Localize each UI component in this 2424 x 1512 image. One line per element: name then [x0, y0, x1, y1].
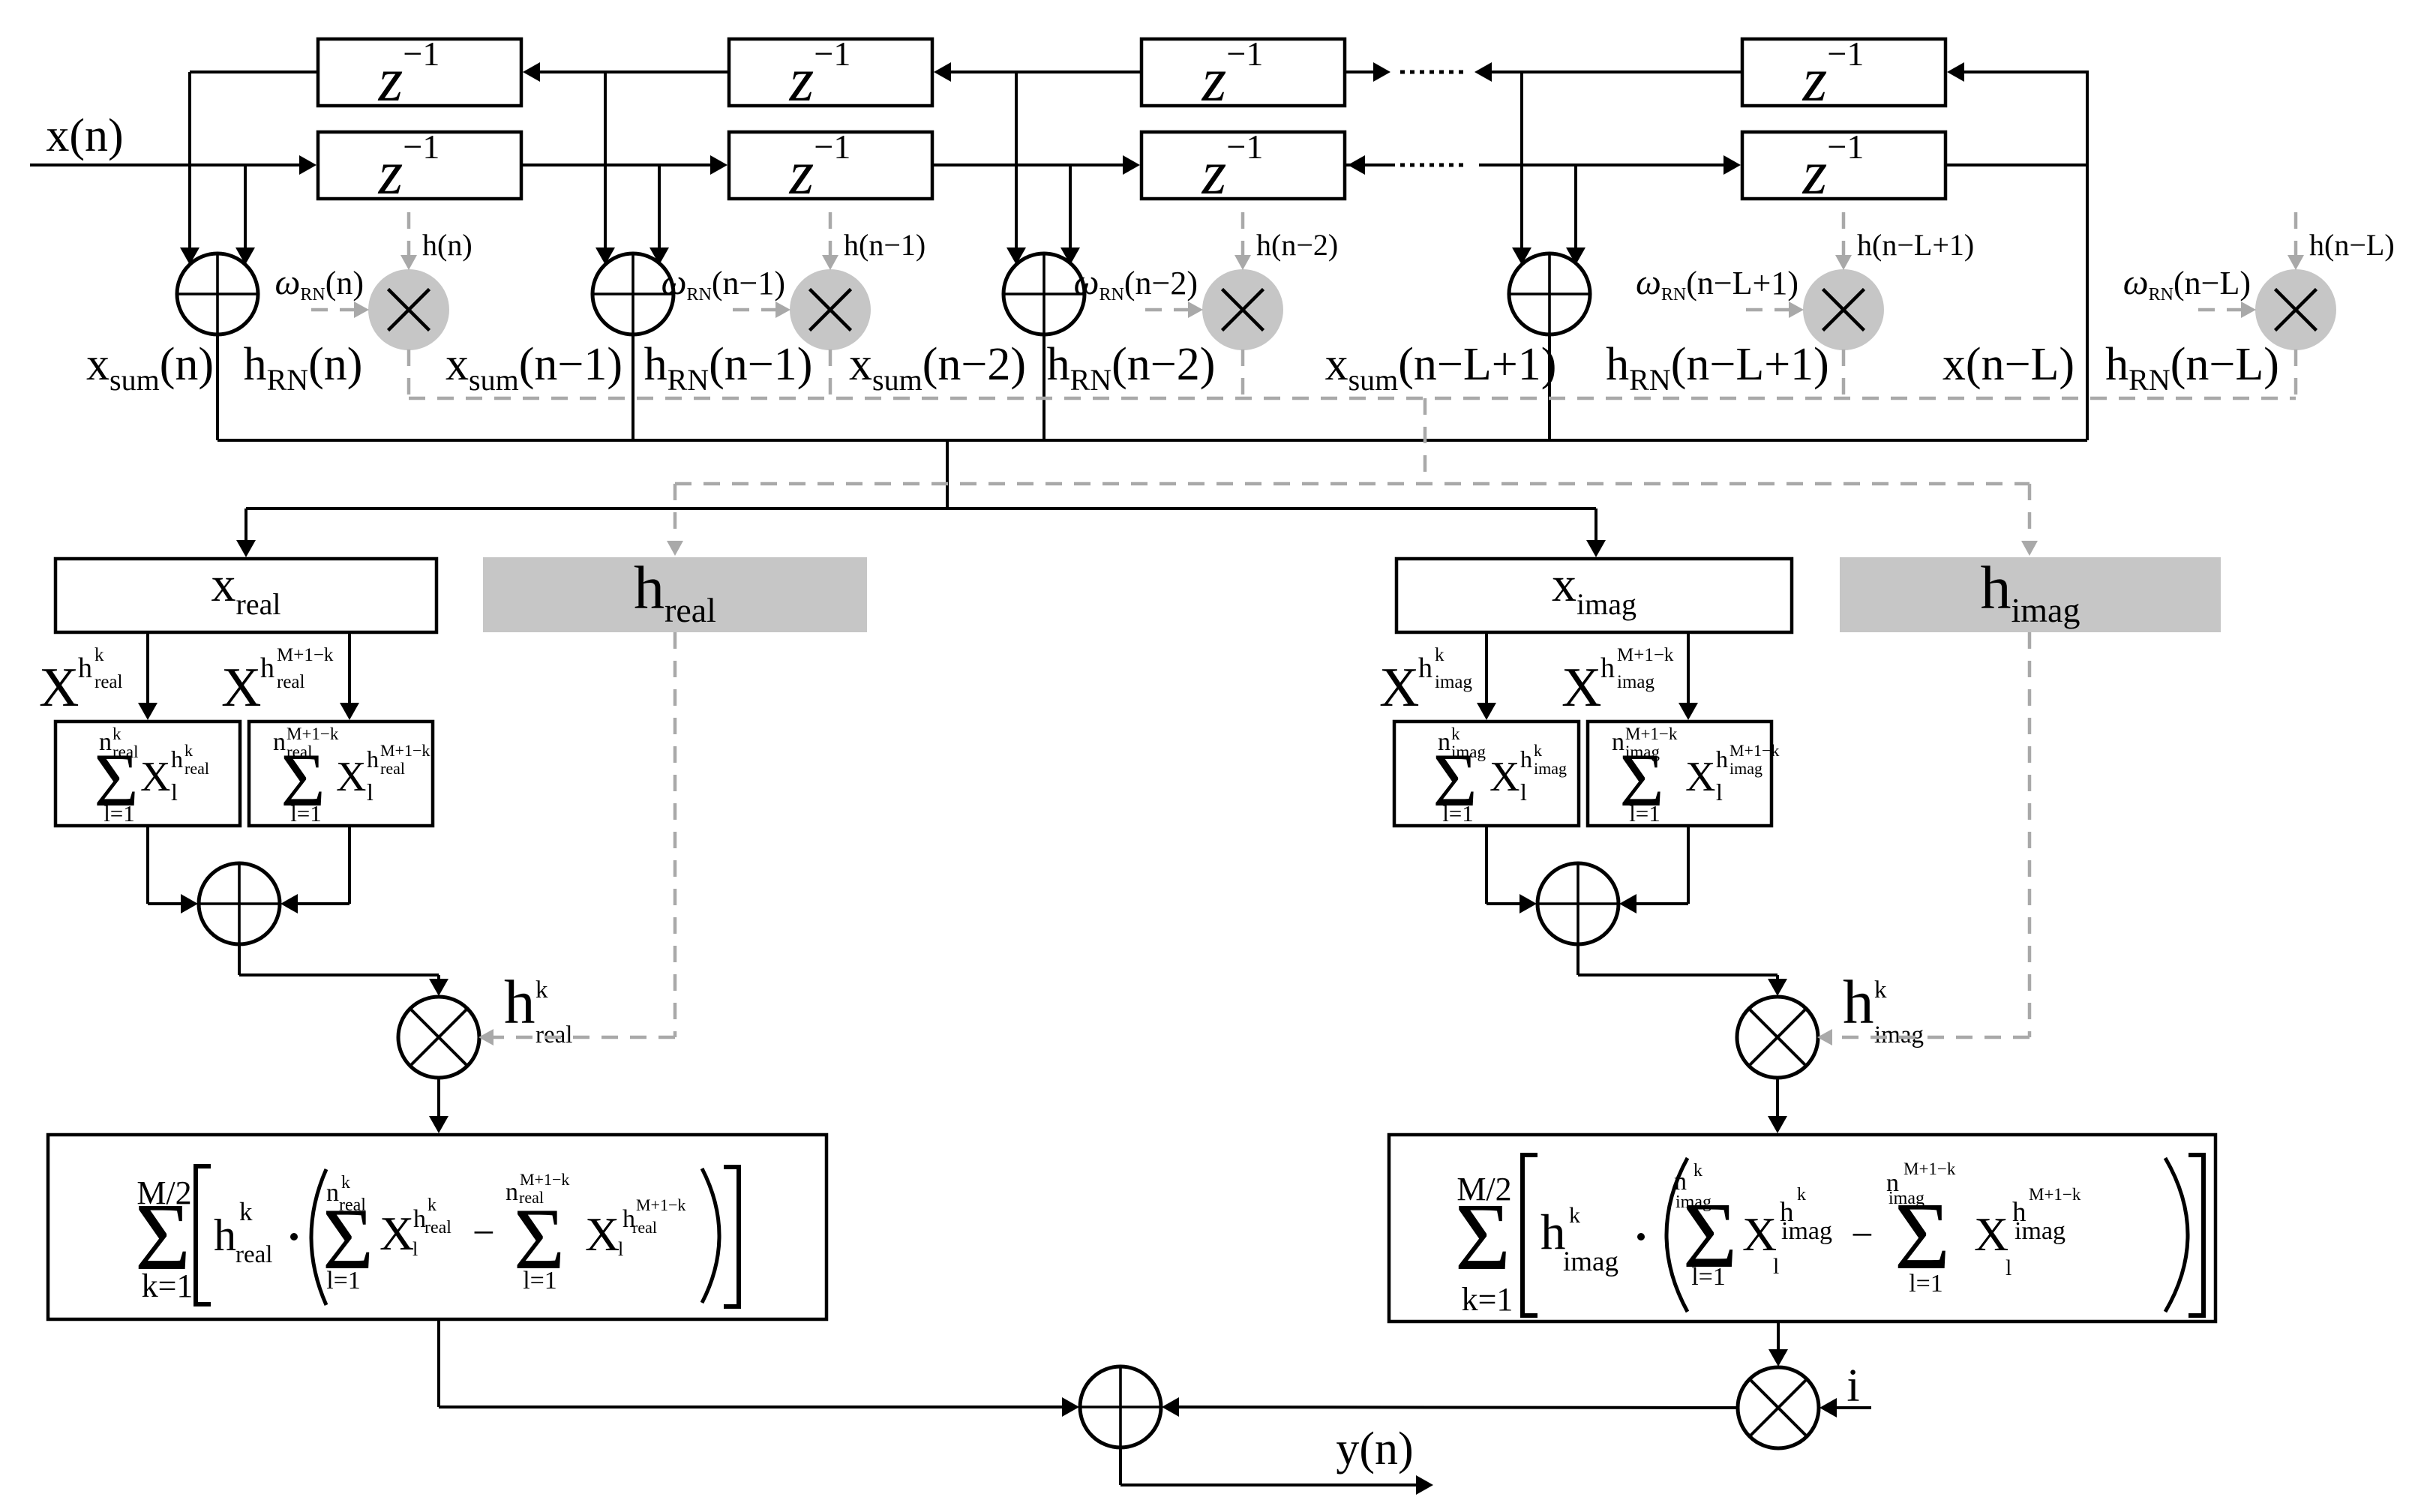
svg-text:h(n−1): h(n−1) — [844, 228, 925, 262]
svg-text:imag: imag — [1874, 1021, 1924, 1048]
mid adder (plus circle) real — [199, 863, 280, 944]
svg-text:X: X — [1685, 754, 1715, 800]
dashed h input from above into multiplier 4 — [1842, 212, 1846, 255]
svg-text:ωRN(n−L): ωRN(n−L) — [2123, 262, 2251, 304]
tap row1 stage2 down to adder A2 — [604, 72, 607, 248]
wire sum box outputs into mid adder imag — [1485, 826, 1488, 904]
svg-text:h: h — [1843, 967, 1874, 1036]
svg-text:l=1: l=1 — [1629, 800, 1660, 826]
svg-text:k=1: k=1 — [142, 1267, 193, 1304]
svg-text:imag: imag — [1435, 672, 1472, 692]
svg-text:M+1−k: M+1−k — [636, 1195, 685, 1214]
dashed omega input from left into multiplier 3 — [1145, 308, 1189, 312]
svg-text:hRN(n−1): hRN(n−1) — [644, 339, 813, 397]
dashed h input from above into multiplier 3 — [1241, 212, 1245, 255]
svg-text:ωRN(n−2): ωRN(n−2) — [1074, 262, 1198, 304]
sum box 2 imag — [1588, 721, 1771, 826]
svg-text:imag: imag — [1534, 759, 1567, 778]
sum box 2 real — [249, 721, 433, 826]
multiplier (gray X circle) 5 — [2255, 269, 2336, 350]
arrow from x_imag into right sum box — [1687, 632, 1690, 706]
svg-text:l=1: l=1 — [1909, 1270, 1943, 1297]
formula box real sum — [48, 1135, 826, 1319]
svg-text:l: l — [1716, 778, 1723, 805]
delay box z-1 bottom row stage 4 — [1742, 132, 1945, 199]
svg-text:h: h — [1520, 745, 1532, 772]
svg-text:k: k — [1569, 1203, 1580, 1228]
multiplier (gray X circle) 2 — [790, 269, 871, 350]
arrow from x_real into right sum box — [348, 632, 351, 706]
svg-text:x(n−L): x(n−L) — [1942, 339, 2074, 390]
svg-text:k: k — [94, 645, 104, 665]
svg-text:imag: imag — [1729, 759, 1762, 778]
wire row2 stub with back arrow at B3 right edge — [1346, 163, 1395, 166]
svg-text:X: X — [221, 657, 261, 718]
svg-text:i: i — [1846, 1360, 1859, 1411]
multiplier (gray X circle) 3 — [1202, 269, 1283, 350]
riser from adder 3 down to solid bus — [1042, 334, 1045, 440]
mid adder (plus circle) imag — [1537, 863, 1618, 944]
svg-text:k: k — [1874, 976, 1887, 1003]
svg-text:k: k — [184, 741, 193, 760]
wire row2 B2 to B3 with arrow into B3 — [932, 163, 1126, 166]
tap row2 stage3 down to adder A3 — [1069, 165, 1072, 248]
svg-text:imag: imag — [1781, 1217, 1832, 1245]
svg-text:ωRN(n−1): ωRN(n−1) — [661, 262, 785, 304]
mid multiplier (X circle) real — [398, 997, 479, 1078]
svg-text:X: X — [1561, 657, 1601, 718]
svg-text:M+1−k: M+1−k — [380, 741, 430, 760]
dashed omega input from left into multiplier 2 — [733, 308, 776, 312]
svg-text:x(n): x(n) — [46, 110, 123, 161]
wire row1 B2 to B1 with arrow into B1 — [536, 70, 729, 73]
stub i into final multiplier — [1833, 1406, 1871, 1409]
arrow down into x_real box — [244, 508, 247, 544]
svg-text:X: X — [140, 754, 170, 800]
formula box imag sum — [1389, 1135, 2215, 1321]
svg-text:h: h — [504, 967, 535, 1036]
delay box z-1 bottom row stage 1 — [318, 132, 521, 199]
final adder (plus circle) — [1080, 1366, 1161, 1447]
svg-text:l: l — [1773, 1254, 1779, 1279]
multiplier (gray X circle) 1 — [368, 269, 449, 350]
svg-text:ωRN(n−L+1): ωRN(n−L+1) — [1636, 262, 1798, 304]
svg-text:l: l — [171, 778, 178, 805]
dashed omega input from left into multiplier 4 — [1746, 308, 1789, 312]
wire mid adder output to multiplier imag — [1576, 943, 1579, 975]
far right riser x(n-L) vertical — [2086, 70, 2089, 440]
svg-text:h(n−L+1): h(n−L+1) — [1857, 228, 1974, 262]
svg-text:l=1: l=1 — [1691, 1263, 1726, 1291]
svg-text:xsum(n): xsum(n) — [86, 339, 214, 397]
mid multiplier (X circle) imag — [1737, 997, 1818, 1078]
tap row2 stage1 down to adder A1 — [244, 165, 247, 248]
svg-text:X: X — [1379, 657, 1419, 718]
dashed tap from dashed bus down — [1423, 398, 1427, 484]
input wire x(n) into B1 bottom row — [30, 163, 303, 166]
svg-text:X: X — [1974, 1207, 2008, 1261]
svg-text:l: l — [412, 1238, 418, 1260]
svg-text:k: k — [1534, 741, 1542, 760]
svg-text:h(n−2): h(n−2) — [1256, 228, 1338, 262]
svg-text:l: l — [618, 1238, 623, 1260]
svg-text:real: real — [632, 1218, 657, 1237]
svg-text:h(n−L): h(n−L) — [2309, 228, 2395, 262]
svg-text:h(n): h(n) — [422, 228, 472, 262]
svg-text:M+1−k: M+1−k — [520, 1170, 569, 1189]
svg-text:M+1−k: M+1−k — [2029, 1185, 2081, 1204]
delay box z-1 bottom row stage 2 — [729, 132, 932, 199]
dashed drop from multiplier 2 to dashed bus — [829, 349, 832, 398]
svg-text:l=1: l=1 — [290, 800, 322, 826]
adder (plus circle) stage 1 — [177, 253, 258, 334]
svg-text:y(n): y(n) — [1336, 1423, 1413, 1474]
svg-text:h: h — [1716, 745, 1728, 772]
svg-text:imag: imag — [2014, 1217, 2065, 1245]
tap row2 stage2 down to adder A2 — [658, 165, 661, 248]
svg-text:h: h — [367, 745, 379, 772]
svg-text:M+1−k: M+1−k — [1617, 645, 1674, 665]
riser from adder 1 down to solid bus — [216, 334, 219, 440]
delay box z-1 bottom row stage 3 — [1141, 132, 1345, 199]
svg-text:hRN(n): hRN(n) — [244, 339, 363, 397]
svg-text:X: X — [379, 1207, 414, 1260]
wire row2 B1 to B2 with arrow into B2 — [521, 163, 714, 166]
svg-text:k: k — [427, 1195, 436, 1215]
svg-text:h: h — [171, 745, 183, 772]
svg-text:l: l — [1520, 778, 1527, 805]
arrow formula box 2 into final multiplier — [1777, 1321, 1780, 1353]
svg-text:k: k — [1797, 1185, 1806, 1204]
dashed drop from multiplier 1 to dashed bus — [407, 349, 411, 398]
dashed arrow into h_real box — [673, 484, 677, 544]
dashed wire h_real to mid multiplier real — [673, 632, 677, 1037]
sum box 1 imag — [1394, 721, 1579, 826]
svg-text:h: h — [1418, 652, 1432, 684]
svg-text:imag: imag — [1563, 1246, 1618, 1277]
svg-text:X: X — [1489, 754, 1519, 800]
wire sum box outputs into mid adder real — [146, 826, 149, 904]
dashed h input from above into multiplier 2 — [829, 212, 832, 255]
svg-text:−: − — [472, 1211, 495, 1255]
dashed bus collecting multiplier outputs — [409, 397, 2296, 400]
delay box z-1 top row stage 1 — [318, 39, 521, 106]
dotted continuation row1 — [1400, 70, 1464, 74]
svg-text:l: l — [367, 778, 373, 805]
multiplier (gray X circle) 4 — [1803, 269, 1884, 350]
delay box z-1 top row stage 4 — [1742, 39, 1945, 106]
tap row1 stage3 down to adder A3 — [1015, 72, 1018, 248]
wire row2 from dots into B4 with arrow — [1479, 163, 1727, 166]
wire formula box 1 to final adder — [437, 1319, 440, 1407]
arrow from x_real into left sum box — [146, 632, 149, 706]
svg-text:M+1−k: M+1−k — [1729, 741, 1779, 760]
dashed h input from above into multiplier 1 — [407, 212, 411, 255]
tap row2 stage4 down to adder A4 — [1574, 165, 1577, 248]
dashed h distribution line — [675, 482, 2029, 486]
solid bus collecting adder outputs — [217, 439, 2087, 442]
dashed h input from above into multiplier 5 — [2294, 212, 2298, 255]
svg-text:X: X — [39, 657, 79, 718]
dashed drop from multiplier 5 to dashed bus — [2294, 349, 2298, 398]
svg-text:real: real — [535, 1021, 572, 1048]
tap row1 stage4 down to adder A4 — [1520, 72, 1523, 248]
svg-text:xsum(n−2): xsum(n−2) — [849, 339, 1026, 397]
svg-text:real: real — [235, 1241, 272, 1268]
svg-text:k=1: k=1 — [1462, 1281, 1513, 1318]
svg-text:h: h — [1540, 1204, 1566, 1260]
svg-text:imag: imag — [1617, 672, 1654, 692]
dashed wire h_imag to mid multiplier imag — [2028, 632, 2032, 1037]
box x_imag — [1396, 559, 1792, 632]
svg-text:real: real — [94, 672, 123, 692]
svg-text:xsum(n−L+1): xsum(n−L+1) — [1325, 339, 1557, 397]
arrow from x_imag into left sum box — [1485, 632, 1488, 706]
svg-text:h: h — [78, 652, 92, 684]
delay box z-1 top row stage 2 — [729, 39, 932, 106]
delay box z-1 top row stage 3 — [1141, 39, 1345, 106]
svg-text:real: real — [184, 759, 209, 778]
svg-text:Σ: Σ — [1455, 1183, 1511, 1290]
x distribution line — [246, 507, 1596, 510]
wire row1 from riser into B4 right edge — [1960, 70, 2087, 73]
svg-text:h: h — [1600, 652, 1615, 684]
output wire y(n) — [1119, 1447, 1122, 1485]
svg-text:l=1: l=1 — [1442, 800, 1474, 826]
wire mid adder output to multiplier real — [238, 943, 241, 975]
wire row1 B3 to B2 with arrow into B2 — [947, 70, 1141, 73]
dashed drop from multiplier 3 to dashed bus — [1241, 349, 1245, 398]
final multiplier by i (X circle) — [1738, 1367, 1819, 1448]
svg-text:hRN(n−L+1): hRN(n−L+1) — [1606, 339, 1829, 397]
svg-text:X: X — [585, 1207, 619, 1261]
dashed arrow into h_imag box — [2028, 484, 2032, 544]
svg-text:k: k — [1693, 1161, 1702, 1180]
riser from adder 2 down to solid bus — [631, 334, 634, 440]
svg-text:l=1: l=1 — [523, 1267, 557, 1294]
svg-text:M+1−k: M+1−k — [277, 645, 334, 665]
svg-text:M+1−k: M+1−k — [1903, 1159, 1956, 1178]
svg-text:xsum(n−1): xsum(n−1) — [445, 339, 622, 397]
dashed omega input from left into multiplier 1 — [311, 308, 355, 312]
adder (plus circle) stage 4 — [1509, 253, 1590, 334]
wire row1 from B1 left to corner and down to adder A1 — [190, 70, 318, 73]
svg-text:k: k — [341, 1173, 350, 1192]
adder (plus circle) stage 2 — [592, 253, 673, 334]
box x_real — [55, 559, 436, 632]
svg-text:hRN(n−L): hRN(n−L) — [2105, 339, 2279, 397]
adder (plus circle) stage 3 — [1003, 253, 1084, 334]
riser from solid bus down to x distribution line — [946, 440, 949, 508]
svg-text:−: − — [1851, 1213, 1873, 1257]
svg-text:ωRN(n): ωRN(n) — [274, 262, 364, 304]
arrow multiplier real into formula box 1 — [437, 1077, 440, 1120]
svg-text:l=1: l=1 — [103, 800, 135, 826]
riser from adder 4 down to solid bus — [1548, 334, 1551, 440]
box h_imag (gray) — [1840, 557, 2221, 632]
box h_real (gray) — [483, 557, 867, 632]
svg-text:X: X — [336, 754, 366, 800]
arrow down into x_imag box — [1594, 508, 1597, 544]
svg-text:real: real — [380, 759, 405, 778]
sum box 1 real — [55, 721, 240, 826]
svg-text:h: h — [260, 652, 274, 684]
arrow multiplier imag into formula box 2 — [1776, 1077, 1779, 1120]
dashed omega input from left into multiplier 5 — [2198, 308, 2242, 312]
wire row1 from B4 left toward dots with arrow — [1491, 70, 1742, 73]
svg-text:real: real — [424, 1218, 451, 1237]
svg-text:real: real — [277, 672, 305, 692]
dotted continuation row2 — [1400, 163, 1464, 167]
svg-text:h: h — [214, 1210, 236, 1260]
svg-text:k: k — [535, 976, 548, 1003]
wire row2 B4 output to far right riser — [1945, 163, 2087, 166]
wire final multiplier to final adder — [1175, 1407, 1738, 1408]
dashed drop from multiplier 4 to dashed bus — [1842, 349, 1846, 398]
svg-text:l: l — [2005, 1255, 2011, 1280]
svg-text:X: X — [1742, 1207, 1777, 1261]
wire row1 stub from B3 right into dots — [1345, 70, 1374, 73]
svg-text:k: k — [1435, 645, 1444, 665]
svg-text:l=1: l=1 — [326, 1267, 361, 1294]
svg-text:hRN(n−2): hRN(n−2) — [1047, 339, 1216, 397]
svg-text:k: k — [239, 1197, 253, 1226]
